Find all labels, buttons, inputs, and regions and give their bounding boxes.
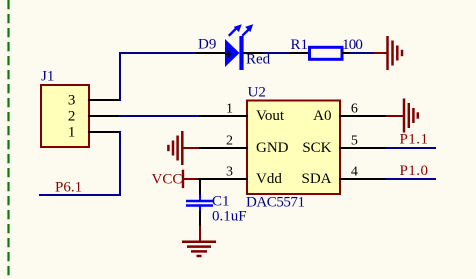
svg-text:1: 1 bbox=[68, 125, 76, 141]
anode pin bbox=[196, 52, 226, 54]
svg-text:D9: D9 bbox=[198, 36, 216, 52]
connector J1 bbox=[41, 69, 89, 147]
svg-text:3: 3 bbox=[226, 165, 233, 180]
svg-text:R1: R1 bbox=[291, 37, 309, 53]
capacitor C1 bbox=[186, 179, 247, 226]
sheet border (dashed) bbox=[7, 0, 9, 279]
light arrow 2 bbox=[242, 29, 249, 36]
LED D9 bbox=[196, 24, 271, 70]
svg-text:SDA: SDA bbox=[301, 171, 331, 187]
U2 pin 2 bbox=[199, 134, 248, 149]
svg-text:SCK: SCK bbox=[302, 140, 331, 156]
U2 pin 4 bbox=[339, 165, 386, 180]
svg-text:J1: J1 bbox=[41, 69, 54, 85]
J1 pin 2 bbox=[88, 115, 120, 117]
power ground (U2 pin6, facing right) bbox=[386, 99, 418, 133]
wire: J1 pin2 to U2 pin1 bbox=[119, 115, 200, 117]
wire: LED to R1 bbox=[263, 52, 290, 54]
svg-text:4: 4 bbox=[351, 165, 358, 180]
cathode bar bbox=[239, 36, 243, 70]
wire: R1 to ground bbox=[350, 52, 374, 54]
svg-text:5: 5 bbox=[351, 134, 358, 149]
plus mark bbox=[225, 53, 232, 55]
wire: U2 pin5 net bbox=[386, 147, 436, 149]
earth ground (below C1) bbox=[182, 226, 216, 257]
light arrow 1 bbox=[229, 29, 236, 36]
U2 pin 5 bbox=[339, 134, 386, 149]
svg-text:A0: A0 bbox=[313, 108, 331, 124]
svg-text:U2: U2 bbox=[248, 85, 266, 101]
wire: J1 pin3 up and right to LED bbox=[120, 53, 197, 101]
svg-text:P1.0: P1.0 bbox=[400, 163, 429, 179]
svg-text:2: 2 bbox=[68, 109, 76, 125]
VCC power port bbox=[152, 170, 199, 188]
svg-text:Vout: Vout bbox=[256, 108, 285, 124]
wire: U2 pin4 net bbox=[386, 178, 436, 180]
U2 pin 1 bbox=[199, 102, 248, 117]
triangle bbox=[225, 39, 240, 67]
svg-text:0.1uF: 0.1uF bbox=[212, 209, 247, 225]
svg-text:DAC5571: DAC5571 bbox=[246, 195, 305, 211]
power ground (top right) bbox=[374, 36, 402, 70]
svg-text:Vdd: Vdd bbox=[256, 171, 282, 187]
power ground (U2 pin2, facing left) bbox=[168, 131, 199, 165]
svg-text:VCC: VCC bbox=[152, 171, 183, 187]
svg-text:C1: C1 bbox=[212, 194, 230, 210]
cathode pin bbox=[243, 52, 263, 54]
svg-text:1: 1 bbox=[226, 102, 233, 117]
U2 pin 6 bbox=[339, 102, 386, 117]
J1 pin 1 bbox=[88, 131, 120, 133]
svg-text:2: 2 bbox=[226, 134, 233, 149]
U2 pin 3 bbox=[198, 165, 249, 180]
svg-text:P1.1: P1.1 bbox=[400, 132, 429, 148]
svg-text:P6.1: P6.1 bbox=[55, 180, 82, 196]
svg-text:6: 6 bbox=[351, 102, 358, 117]
svg-text:100: 100 bbox=[342, 37, 362, 53]
wire: J1 pin1 down to P6.1 stub bbox=[39, 131, 120, 195]
IC U2 bbox=[246, 85, 340, 211]
svg-text:GND: GND bbox=[256, 140, 289, 156]
J1 pin 3 bbox=[88, 99, 120, 101]
svg-text:3: 3 bbox=[68, 93, 76, 109]
resistor R1 bbox=[289, 37, 362, 59]
